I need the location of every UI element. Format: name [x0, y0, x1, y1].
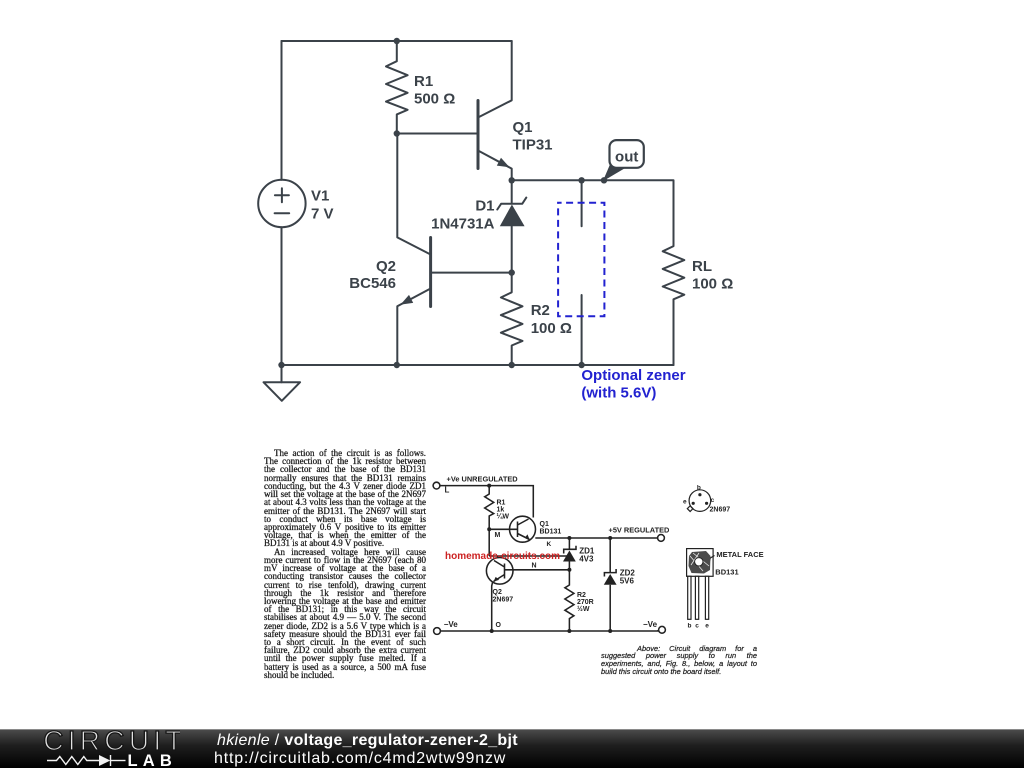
svg-text:Q2: Q2: [376, 258, 396, 275]
svg-text:out: out: [615, 148, 638, 165]
svg-text:L: L: [445, 485, 450, 494]
svg-text:c: c: [711, 497, 715, 504]
svg-text:½W: ½W: [577, 605, 590, 613]
svg-text:−Ve: −Ve: [643, 620, 658, 629]
svg-text:BD131: BD131: [715, 568, 738, 577]
svg-text:270R: 270R: [577, 599, 594, 606]
svg-text:K: K: [547, 541, 552, 548]
svg-text:500 Ω: 500 Ω: [414, 90, 455, 107]
svg-text:Q2: Q2: [493, 589, 502, 596]
svg-text:TIP31: TIP31: [513, 137, 553, 154]
svg-text:Q1: Q1: [540, 521, 549, 528]
svg-text:b: b: [688, 623, 692, 630]
svg-text:M: M: [495, 532, 501, 539]
svg-text:−Ve: −Ve: [444, 620, 459, 629]
svg-text:METAL FACE: METAL FACE: [716, 550, 763, 559]
svg-text:BD131: BD131: [540, 529, 562, 536]
svg-text:+5V REGULATED: +5V REGULATED: [609, 526, 671, 535]
svg-text:BC546: BC546: [349, 275, 396, 292]
svg-text:R1: R1: [497, 500, 506, 507]
svg-text:LAB: LAB: [128, 752, 178, 768]
svg-text:D1: D1: [475, 198, 494, 215]
svg-text:5V6: 5V6: [620, 577, 635, 586]
svg-text:4V3: 4V3: [579, 555, 594, 564]
svg-text:b: b: [697, 485, 701, 492]
svg-text:e: e: [683, 499, 687, 506]
svg-text:1N4731A: 1N4731A: [431, 216, 495, 233]
svg-text:R1: R1: [414, 73, 433, 90]
svg-text:R2: R2: [531, 302, 550, 319]
svg-text:+Ve UNREGULATED: +Ve UNREGULATED: [447, 475, 519, 484]
svg-text:V1: V1: [311, 187, 329, 204]
svg-text:100 Ω: 100 Ω: [692, 275, 733, 292]
svg-text:R2: R2: [577, 592, 586, 599]
svg-text:¼W: ¼W: [497, 513, 510, 521]
svg-text:e: e: [705, 623, 709, 630]
svg-text:RL: RL: [692, 258, 712, 275]
svg-text:7 V: 7 V: [311, 205, 334, 222]
svg-text:homemade-circuits.com: homemade-circuits.com: [445, 551, 560, 562]
svg-text:N: N: [532, 563, 537, 570]
svg-text:Optional zener: Optional zener: [581, 367, 685, 384]
svg-text:c: c: [695, 623, 699, 630]
svg-text:O: O: [496, 622, 502, 629]
svg-text:(with 5.6V): (with 5.6V): [581, 385, 656, 402]
svg-text:2N697: 2N697: [710, 507, 731, 514]
svg-text:Q1: Q1: [513, 119, 533, 136]
svg-text:100 Ω: 100 Ω: [531, 320, 572, 337]
svg-text:2N697: 2N697: [493, 597, 514, 604]
svg-text:1k: 1k: [497, 507, 505, 514]
